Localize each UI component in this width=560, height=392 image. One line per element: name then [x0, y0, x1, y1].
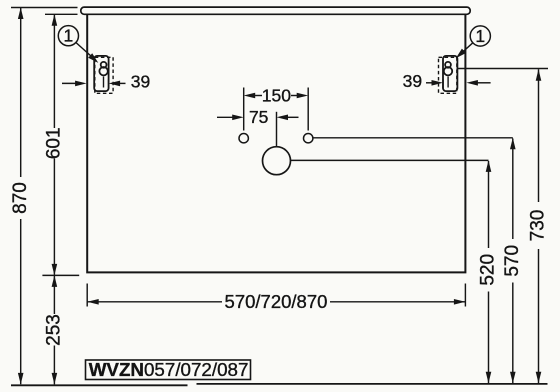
svg-text:WVZN057/072/087: WVZN057/072/087	[89, 359, 249, 380]
svg-text:520: 520	[477, 254, 498, 286]
svg-text:253: 253	[43, 314, 64, 346]
svg-text:150: 150	[262, 86, 291, 106]
svg-text:39: 39	[131, 71, 150, 91]
svg-text:1: 1	[64, 26, 74, 46]
svg-text:730: 730	[527, 210, 548, 242]
svg-text:1: 1	[475, 26, 485, 46]
svg-text:39: 39	[403, 71, 422, 91]
svg-text:870: 870	[10, 182, 31, 214]
svg-text:570/720/870: 570/720/870	[225, 291, 328, 312]
svg-text:570: 570	[502, 245, 523, 277]
svg-text:601: 601	[43, 127, 64, 159]
svg-text:75: 75	[249, 107, 268, 127]
